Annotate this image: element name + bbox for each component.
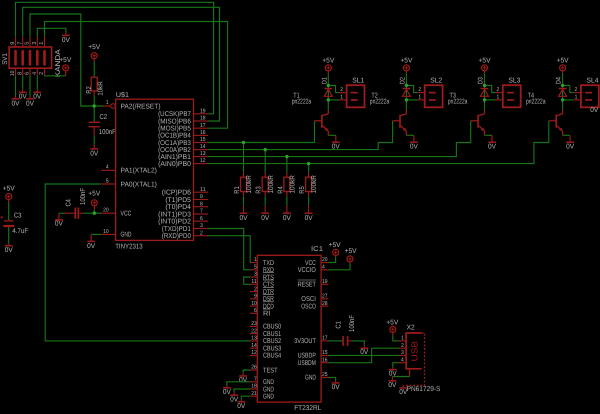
- svg-text:7: 7: [254, 377, 257, 383]
- svg-text:17: 17: [200, 123, 206, 129]
- svg-text:26: 26: [251, 365, 257, 371]
- svg-text:VCCIO: VCCIO: [298, 267, 317, 274]
- svg-text:13: 13: [251, 336, 257, 342]
- svg-text:0V: 0V: [360, 349, 368, 356]
- svg-text:14: 14: [200, 144, 206, 150]
- svg-text:3: 3: [254, 272, 257, 278]
- svg-text:0V: 0V: [5, 247, 13, 254]
- svg-text:(OC1A)PB3: (OC1A)PB3: [158, 139, 191, 147]
- svg-text:4: 4: [401, 357, 404, 363]
- svg-text:3: 3: [32, 42, 38, 45]
- svg-text:20: 20: [103, 208, 109, 214]
- svg-text:25: 25: [322, 372, 328, 378]
- svg-text:D1: D1: [321, 77, 328, 84]
- svg-text:0V: 0V: [239, 377, 247, 384]
- svg-text:16: 16: [200, 130, 206, 136]
- svg-text:RI: RI: [263, 311, 270, 318]
- svg-text:USBDM: USBDM: [298, 360, 316, 367]
- svg-text:0V: 0V: [590, 107, 598, 114]
- svg-text:(OC1B)PB4: (OC1B)PB4: [158, 132, 191, 140]
- svg-text:PA1(XTAL2): PA1(XTAL2): [121, 167, 157, 175]
- svg-text:100kR: 100kR: [245, 175, 253, 193]
- svg-text:13: 13: [200, 151, 206, 157]
- svg-text:pn2222a: pn2222a: [292, 98, 312, 105]
- svg-text:2: 2: [39, 72, 45, 75]
- svg-text:(T0)PD4: (T0)PD4: [165, 203, 191, 211]
- svg-text:5: 5: [106, 178, 109, 184]
- svg-text:0V: 0V: [240, 215, 248, 222]
- svg-text:2: 2: [575, 87, 578, 93]
- svg-text:(RXD)PD0: (RXD)PD0: [162, 232, 191, 240]
- svg-text:1: 1: [418, 94, 421, 100]
- svg-text:(MOSI)PB5: (MOSI)PB5: [158, 125, 191, 133]
- svg-text:+5V: +5V: [400, 57, 412, 64]
- svg-text:GND: GND: [305, 375, 316, 382]
- svg-text:4: 4: [106, 165, 109, 171]
- svg-text:27: 27: [322, 294, 328, 300]
- svg-text:16: 16: [322, 357, 328, 363]
- svg-text:8: 8: [200, 201, 203, 207]
- svg-text:1: 1: [340, 94, 343, 100]
- svg-text:VCC: VCC: [121, 211, 132, 218]
- svg-text:(AIN0)PB0: (AIN0)PB0: [158, 160, 191, 168]
- svg-text:10: 10: [103, 229, 109, 235]
- svg-text:pn2222a: pn2222a: [526, 98, 546, 105]
- svg-text:19: 19: [322, 279, 328, 285]
- svg-text:100kR: 100kR: [267, 175, 275, 193]
- svg-text:RXD: RXD: [263, 267, 274, 274]
- svg-text:0V: 0V: [283, 215, 291, 222]
- svg-text:15: 15: [200, 137, 206, 143]
- svg-text:+5V: +5V: [322, 57, 334, 64]
- svg-text:SL4: SL4: [587, 78, 599, 85]
- svg-text:(T1)PD5: (T1)PD5: [165, 196, 191, 204]
- svg-text:0V: 0V: [223, 389, 231, 396]
- svg-text:0V: 0V: [261, 215, 269, 222]
- svg-text:3V3OUT: 3V3OUT: [294, 338, 316, 345]
- svg-text:0V: 0V: [566, 143, 574, 150]
- svg-text:pn2222a: pn2222a: [370, 98, 390, 105]
- svg-text:SL1: SL1: [352, 78, 364, 85]
- svg-text:0V: 0V: [305, 215, 313, 222]
- svg-text:PA2(/RESET): PA2(/RESET): [121, 102, 161, 110]
- svg-text:C1: C1: [335, 321, 342, 328]
- svg-text:8: 8: [17, 72, 23, 75]
- svg-text:17: 17: [322, 336, 328, 342]
- svg-text:+5V: +5V: [59, 57, 71, 64]
- svg-text:+5V: +5V: [479, 57, 491, 64]
- svg-text:C2: C2: [100, 114, 108, 121]
- svg-text:(TXD)PD1: (TXD)PD1: [162, 225, 191, 233]
- svg-text:+5V: +5V: [88, 191, 100, 198]
- svg-text:+5V: +5V: [557, 57, 569, 64]
- svg-text:9: 9: [200, 194, 203, 200]
- svg-text:R3: R3: [256, 186, 263, 193]
- svg-text:0V: 0V: [62, 37, 70, 44]
- svg-text:20: 20: [322, 257, 328, 263]
- svg-text:15: 15: [322, 350, 328, 356]
- svg-text:(MISO)PB6: (MISO)PB6: [158, 117, 191, 125]
- svg-text:2: 2: [497, 87, 500, 93]
- svg-text:PN61729-S: PN61729-S: [407, 386, 441, 393]
- svg-text:CBUS3: CBUS3: [263, 346, 281, 353]
- svg-text:100nF: 100nF: [349, 315, 356, 332]
- svg-text:1: 1: [39, 42, 45, 45]
- svg-text:+5V: +5V: [329, 242, 341, 249]
- svg-text:CBUS1: CBUS1: [263, 331, 281, 338]
- svg-text:19: 19: [200, 108, 206, 114]
- svg-text:100kR: 100kR: [310, 175, 318, 193]
- svg-text:U$1: U$1: [116, 91, 129, 99]
- svg-text:CBUS4: CBUS4: [263, 353, 281, 360]
- svg-text:D2: D2: [399, 77, 406, 84]
- svg-text:2: 2: [340, 87, 343, 93]
- svg-text:D3: D3: [478, 77, 485, 84]
- svg-text:GND: GND: [121, 232, 132, 239]
- svg-text:1: 1: [497, 94, 500, 100]
- svg-text:10: 10: [10, 71, 16, 77]
- svg-text:28: 28: [322, 301, 328, 307]
- svg-text:TXD: TXD: [263, 260, 274, 267]
- svg-text:(OC0A)PB2: (OC0A)PB2: [158, 146, 191, 154]
- svg-text:USBDP: USBDP: [298, 353, 316, 360]
- svg-text:OSCI: OSCI: [301, 296, 316, 303]
- svg-text:3: 3: [200, 223, 203, 229]
- svg-text:1: 1: [106, 100, 109, 106]
- svg-text:C3: C3: [14, 213, 22, 220]
- svg-text:R1: R1: [234, 186, 241, 193]
- svg-text:0V: 0V: [55, 221, 63, 228]
- svg-text:RESET: RESET: [298, 282, 317, 289]
- svg-text:100kR: 100kR: [289, 175, 297, 193]
- svg-text:7: 7: [17, 42, 23, 45]
- svg-text:10kR: 10kR: [97, 81, 105, 96]
- svg-text:0V: 0V: [388, 382, 396, 389]
- svg-text:6: 6: [25, 72, 31, 75]
- svg-text:6: 6: [200, 216, 203, 222]
- svg-text:R4: R4: [277, 186, 284, 193]
- svg-text:100nF: 100nF: [99, 129, 116, 136]
- svg-text:0V: 0V: [87, 243, 95, 250]
- svg-text:0V: 0V: [488, 143, 496, 150]
- svg-text:SL3: SL3: [508, 78, 520, 85]
- svg-text:GND: GND: [263, 379, 274, 386]
- svg-text:1: 1: [575, 94, 578, 100]
- svg-text:1: 1: [401, 336, 404, 342]
- svg-text:0V: 0V: [410, 143, 418, 150]
- svg-text:CBUS0: CBUS0: [263, 324, 281, 331]
- svg-text:11: 11: [200, 187, 206, 193]
- svg-text:9: 9: [10, 42, 16, 45]
- svg-text:100nF: 100nF: [80, 188, 87, 205]
- svg-text:3: 3: [401, 350, 404, 356]
- svg-text:SL2: SL2: [430, 78, 442, 85]
- svg-text:OSCO: OSCO: [301, 303, 316, 310]
- svg-text:0V: 0V: [12, 100, 20, 107]
- svg-text:VCC: VCC: [305, 260, 316, 267]
- svg-text:DTR: DTR: [263, 289, 274, 296]
- svg-text:(ICP)PD6: (ICP)PD6: [162, 189, 191, 197]
- svg-text:TINY2313: TINY2313: [115, 244, 143, 251]
- svg-text:4: 4: [32, 72, 38, 75]
- svg-text:2: 2: [418, 87, 421, 93]
- svg-text:12: 12: [251, 350, 257, 356]
- svg-text:GND: GND: [263, 386, 274, 393]
- svg-text:TEST: TEST: [263, 367, 278, 374]
- svg-text:X2: X2: [407, 324, 415, 331]
- svg-text:5: 5: [254, 265, 257, 271]
- svg-text:FT232RL: FT232RL: [294, 405, 321, 412]
- svg-text:PA0(XTAL1): PA0(XTAL1): [121, 180, 157, 188]
- svg-text:CBUS2: CBUS2: [263, 338, 281, 345]
- svg-text:2: 2: [401, 343, 404, 349]
- svg-text:11: 11: [251, 279, 257, 285]
- svg-text:9: 9: [254, 294, 257, 300]
- svg-text:14: 14: [251, 343, 257, 349]
- svg-text:22: 22: [251, 328, 257, 334]
- svg-text:+5V: +5V: [345, 248, 357, 255]
- svg-text:0V: 0V: [90, 150, 98, 157]
- svg-text:R5: R5: [299, 186, 306, 193]
- svg-text:6: 6: [254, 308, 257, 314]
- svg-text:(INT0)PD2: (INT0)PD2: [158, 218, 191, 226]
- svg-text:0V: 0V: [237, 403, 245, 410]
- svg-text:4.7uF: 4.7uF: [12, 228, 28, 235]
- svg-text:18: 18: [251, 384, 257, 390]
- svg-text:(UCSK)PB7: (UCSK)PB7: [158, 110, 191, 118]
- svg-text:0V: 0V: [33, 94, 41, 101]
- svg-text:USB: USB: [409, 341, 419, 362]
- svg-text:2: 2: [254, 286, 257, 292]
- svg-text:5: 5: [25, 42, 31, 45]
- svg-text:+5V: +5V: [386, 320, 398, 327]
- svg-text:(AIN1)PB1: (AIN1)PB1: [158, 153, 191, 161]
- svg-text:1: 1: [254, 257, 257, 263]
- svg-text:D4: D4: [556, 77, 563, 84]
- svg-text:C4: C4: [66, 199, 73, 206]
- svg-text:21: 21: [251, 391, 257, 397]
- svg-text:2: 2: [200, 230, 203, 236]
- svg-text:(INT1)PD3: (INT1)PD3: [158, 210, 191, 218]
- svg-text:4: 4: [322, 265, 325, 271]
- svg-text:7: 7: [200, 209, 203, 215]
- svg-text:0V: 0V: [332, 384, 340, 391]
- svg-text:12: 12: [200, 158, 206, 164]
- svg-text:23: 23: [251, 321, 257, 327]
- svg-text:R2: R2: [86, 86, 93, 93]
- svg-text:pn2222a: pn2222a: [448, 98, 468, 105]
- svg-text:SV1: SV1: [2, 53, 9, 65]
- svg-text:0V: 0V: [26, 100, 34, 107]
- svg-text:+5V: +5V: [3, 185, 15, 192]
- svg-text:IC1: IC1: [311, 246, 323, 253]
- svg-text:DCD: DCD: [263, 303, 274, 310]
- svg-text:0V: 0V: [332, 143, 340, 150]
- svg-text:18: 18: [200, 116, 206, 122]
- svg-text:GND: GND: [263, 394, 274, 401]
- svg-text:+5V: +5V: [88, 44, 100, 51]
- svg-text:10: 10: [251, 301, 257, 307]
